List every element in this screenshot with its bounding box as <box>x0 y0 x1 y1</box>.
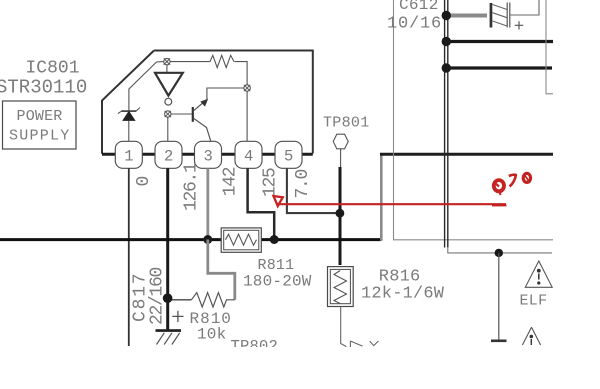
inverter triangle (error amp) <box>155 73 183 96</box>
scan margin bottom <box>0 347 600 389</box>
pin 2 wire down <box>166 168 169 298</box>
pin 1 <box>115 141 142 168</box>
inverter output bubble <box>165 98 172 105</box>
test point TP801 hexagon <box>333 134 348 149</box>
svg-text:TP801: TP801 <box>323 114 370 131</box>
red annotation line <box>276 203 506 205</box>
resistor R810 <box>168 293 235 307</box>
wire zener to internal node <box>129 62 164 111</box>
red scribble glyph 2 <box>509 175 516 187</box>
svg-text:0: 0 <box>134 177 154 187</box>
red annotation arrow <box>274 196 283 206</box>
pin 3 wire down (gray) <box>206 168 209 239</box>
svg-text:142: 142 <box>220 167 240 196</box>
wire TP801 to node <box>340 149 342 167</box>
pin 1 wire down <box>128 168 130 346</box>
scan margin right <box>554 0 600 389</box>
wire down to ground <box>498 253 500 340</box>
wire gray staircase pin3 to R810 <box>208 240 235 300</box>
node junction pin4/bus <box>270 235 279 244</box>
wire thick output 1 <box>446 40 553 43</box>
svg-text:POWER: POWER <box>17 108 63 125</box>
svg-text:10k: 10k <box>197 326 226 344</box>
svg-text:22/160: 22/160 <box>148 267 168 325</box>
IC801 bottom edge bus through pins <box>102 153 313 156</box>
warning triangle 1 <box>525 261 552 287</box>
wire TP801 node thick <box>339 167 342 265</box>
wire base node to transistor <box>171 113 192 115</box>
node junction ground net <box>495 249 503 257</box>
IC801 part number STR30110 <box>0 77 87 99</box>
zener diode D1 (pin 1) <box>118 108 140 143</box>
pin 5 wire down <box>287 168 340 213</box>
pin 5 <box>275 141 302 168</box>
node junction bus/output1 <box>442 37 451 46</box>
capacitor C817 wire to ground <box>166 298 169 330</box>
wire top internal <box>170 61 210 63</box>
wire C612 up <box>510 0 539 15</box>
wire right top corner <box>546 0 553 94</box>
svg-text:SUPPLY: SUPPLY <box>9 128 71 145</box>
svg-text:5: 5 <box>284 148 293 166</box>
svg-text:3: 3 <box>204 148 213 166</box>
output line thick right <box>380 153 553 156</box>
wire below R816 (cut) <box>341 307 347 347</box>
wire crosshair to pin 2 <box>167 117 169 142</box>
pin 2 <box>155 141 182 168</box>
svg-text:126.1: 126.1 <box>182 163 202 211</box>
wire lower thin net <box>448 247 552 253</box>
wire emitter to pin4 net <box>207 88 244 100</box>
resistor internal (inside IC) <box>210 55 234 67</box>
POWER SUPPLY box <box>3 101 77 149</box>
node junction bus/C612 <box>442 11 451 20</box>
svg-text:C612: C612 <box>399 0 439 14</box>
wire thick output 2 <box>446 66 552 69</box>
node junction pin5/TP801 <box>336 209 345 218</box>
right block outline <box>394 0 554 240</box>
ground bar <box>491 340 507 343</box>
svg-text:7.0: 7.0 <box>293 169 313 198</box>
svg-text:4: 4 <box>244 148 253 166</box>
cut symbol mark 2 <box>370 341 379 346</box>
node junction bus/output2 <box>442 63 451 72</box>
svg-text:R811: R811 <box>258 257 295 274</box>
resistor R811 <box>221 228 261 252</box>
red annotation line overdraw <box>492 205 507 207</box>
svg-text:10/16: 10/16 <box>387 15 442 34</box>
node crosshair right (pin4 net) <box>244 85 250 91</box>
wire gray riser to output line <box>380 155 383 241</box>
svg-text:2: 2 <box>164 148 173 166</box>
svg-text:125: 125 <box>261 168 281 197</box>
IC801 reference label <box>26 59 80 79</box>
pin 4 wire down <box>248 168 275 239</box>
node crosshair left (pin1/2 net) <box>164 58 170 64</box>
capacitor C612 <box>490 3 524 30</box>
red scribble glyph 1 <box>494 180 504 195</box>
bus wire R811 to corner <box>261 238 381 241</box>
svg-text:180-20W: 180-20W <box>243 273 312 291</box>
bus double vertical lines <box>445 0 448 248</box>
pin 3 <box>195 141 222 168</box>
node crosshair base (pin2 net) <box>165 111 171 117</box>
main bus wire left <box>0 238 222 241</box>
resistor R816 <box>328 267 354 307</box>
red scribble glyph 3 <box>523 173 530 182</box>
ground (C817) <box>156 329 182 344</box>
pin 4 <box>235 141 262 168</box>
wire crosshair to pin 4 <box>246 91 248 142</box>
op-amp U1 IC801 body outline <box>102 51 313 154</box>
svg-text:STR30110: STR30110 <box>0 77 87 99</box>
transistor Q1 internal <box>193 99 211 142</box>
node junction C817/R810 <box>163 293 173 303</box>
svg-text:1: 1 <box>124 148 133 166</box>
node junction pin3/bus <box>203 235 212 244</box>
wire node to inverter <box>166 65 168 73</box>
svg-text:12k-1/6W: 12k-1/6W <box>361 285 445 304</box>
warning triangle 2 (cut) <box>522 327 540 345</box>
wire resistor to pin4 net <box>235 62 248 85</box>
wire to C612 (gray thick) <box>446 14 487 18</box>
C817 polarity plus <box>172 311 183 322</box>
cut symbol mark 1 <box>350 341 362 347</box>
svg-text:IC801: IC801 <box>26 59 80 79</box>
svg-text:ELF: ELF <box>520 293 548 310</box>
